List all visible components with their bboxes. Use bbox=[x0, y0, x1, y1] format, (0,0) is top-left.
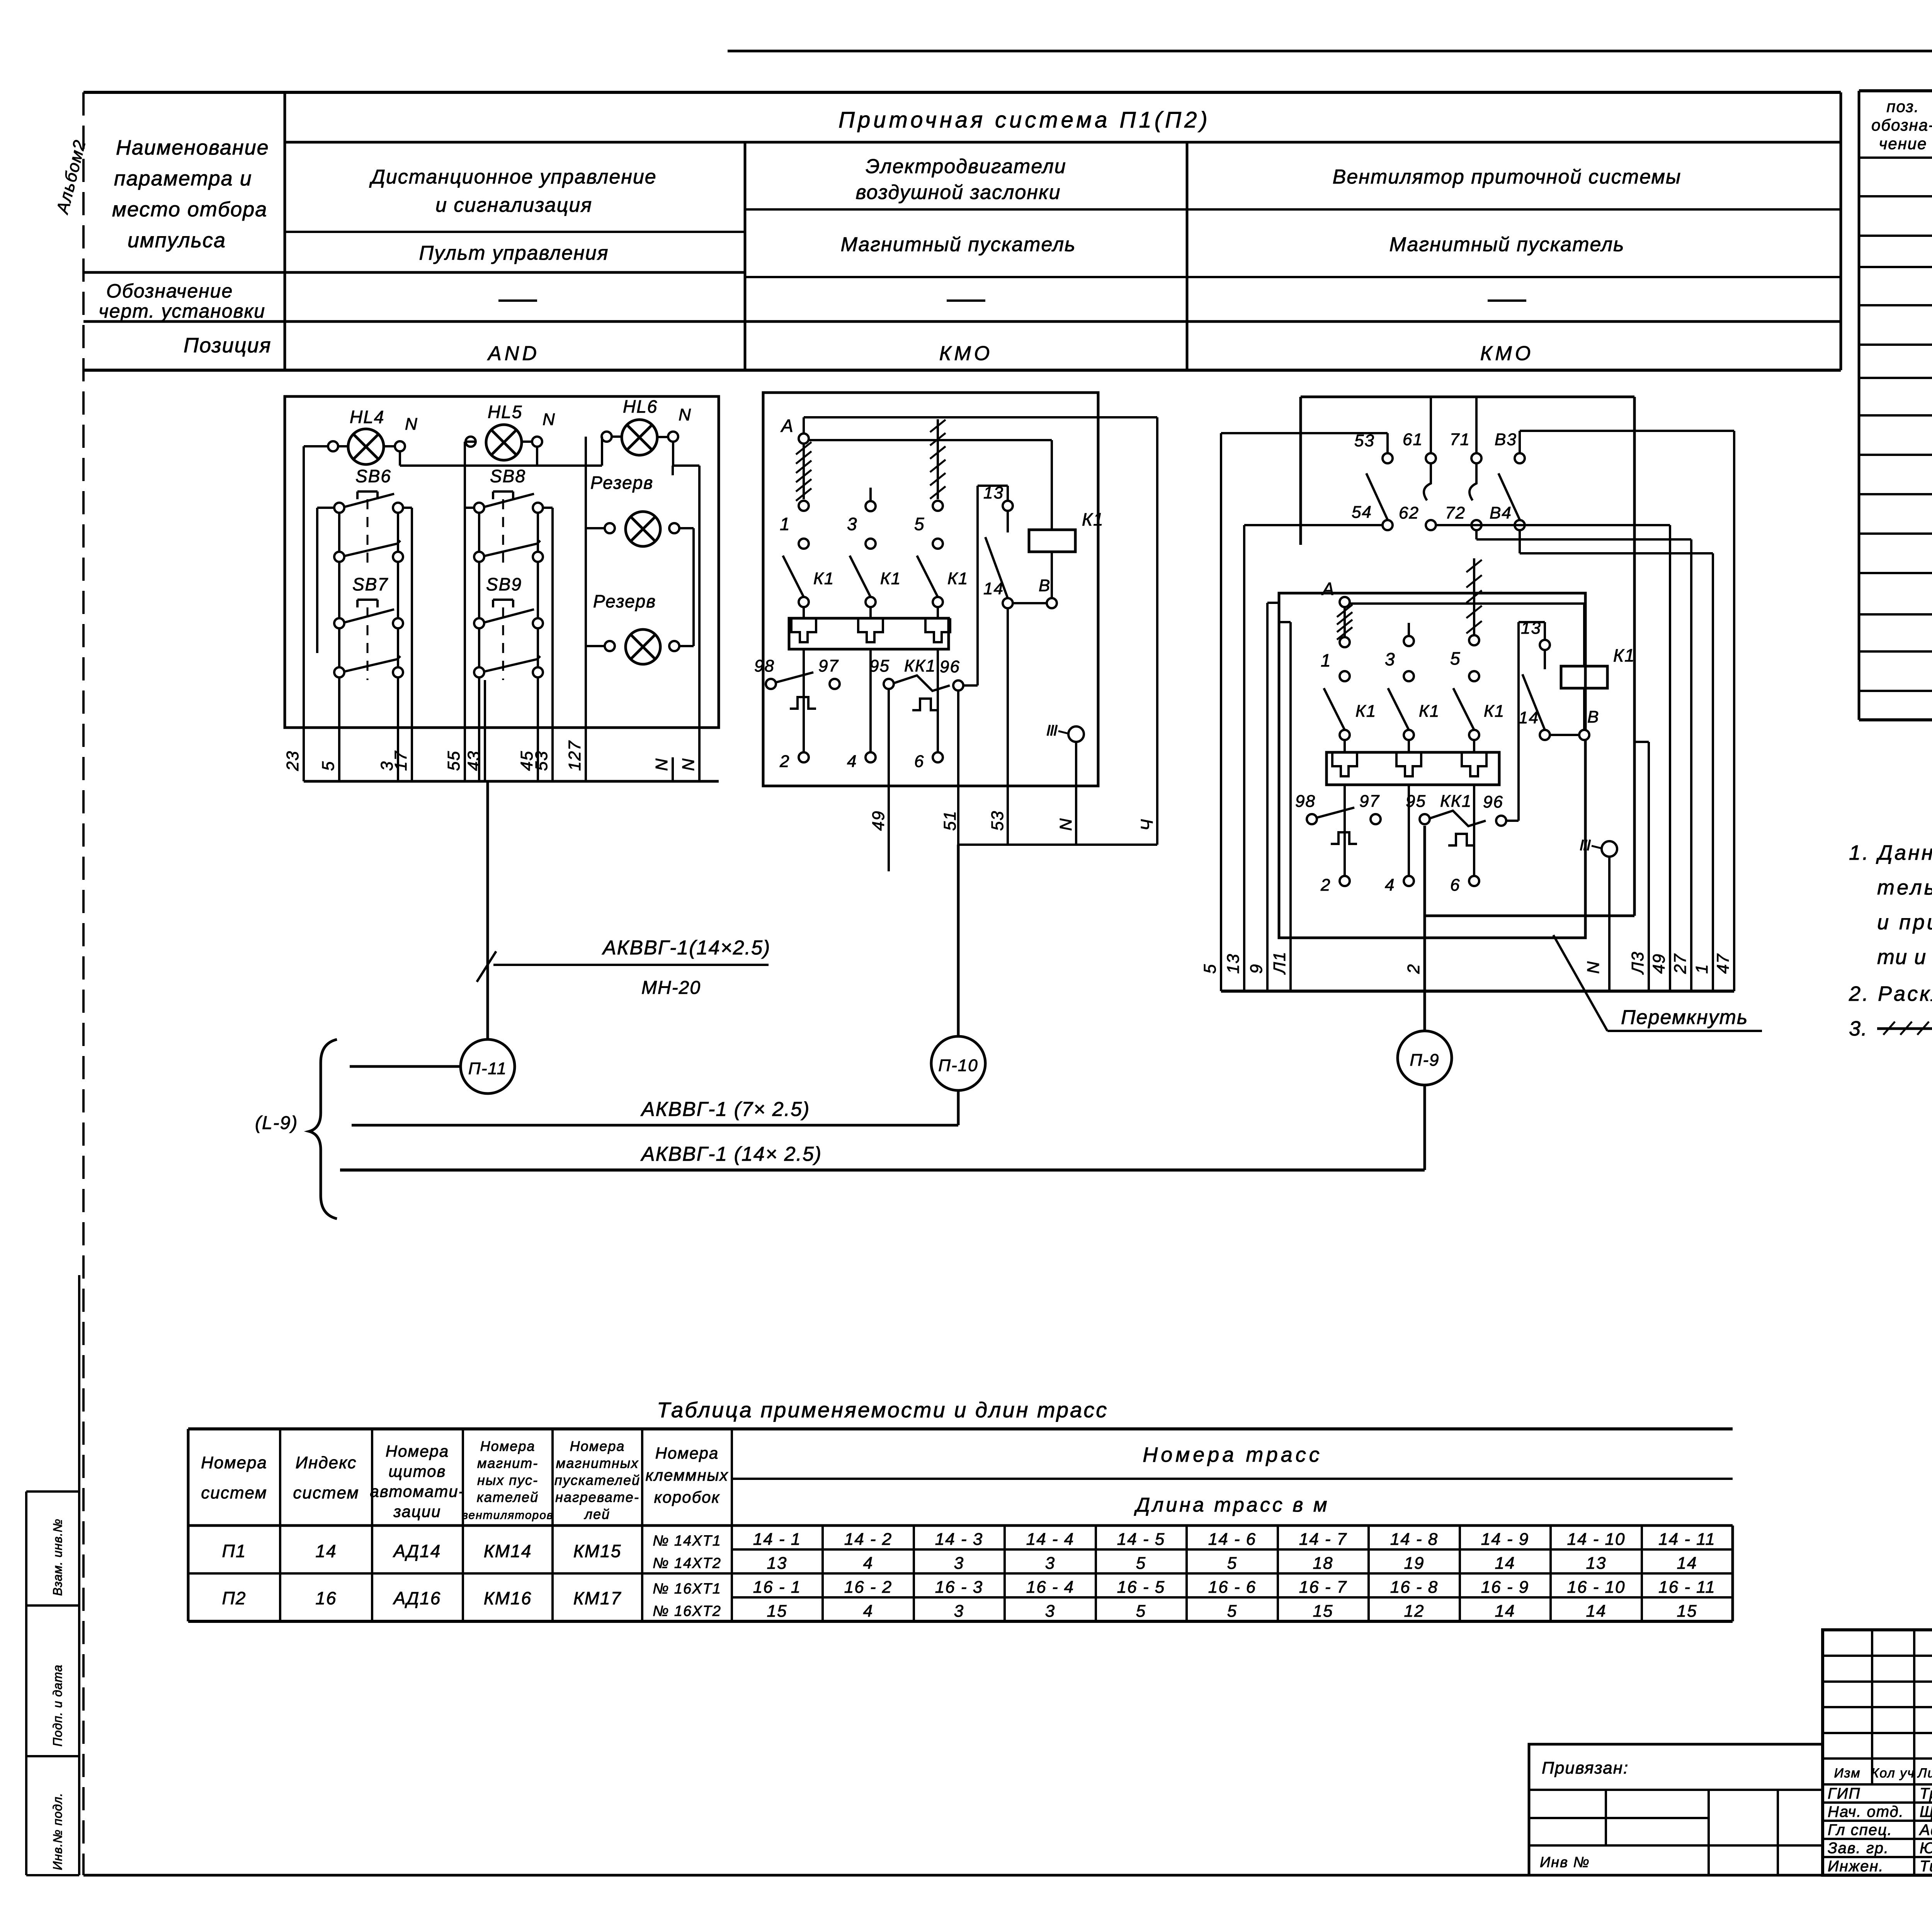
svg-text:62: 62 bbox=[1399, 503, 1419, 522]
svg-text:72: 72 bbox=[1445, 503, 1466, 522]
lamp HL4 bbox=[328, 407, 418, 464]
header label column texts bbox=[99, 136, 271, 357]
wire В4 bottom to bus 1 bbox=[1520, 530, 1713, 991]
svg-text:кателей: кателей bbox=[477, 1489, 539, 1505]
contactor K1 coil (block3) bbox=[1561, 645, 1635, 688]
button SB6 bbox=[334, 466, 403, 562]
margin label Альбом2 bbox=[53, 138, 89, 216]
svg-text:ти и длин трасс.: ти и длин трасс. bbox=[1877, 946, 1932, 969]
svg-text:14 - 3: 14 - 3 bbox=[935, 1530, 983, 1549]
svg-text:Инв №: Инв № bbox=[1540, 1854, 1590, 1871]
svg-text:13: 13 bbox=[1224, 953, 1243, 974]
svg-text:Номера: Номера bbox=[570, 1438, 625, 1454]
header column 3 texts bbox=[1333, 166, 1682, 365]
svg-text:АКВВГ-1 (14× 2.5): АКВВГ-1 (14× 2.5) bbox=[640, 1143, 822, 1165]
svg-text:14: 14 bbox=[1495, 1602, 1515, 1621]
damper starter box bbox=[763, 393, 1098, 786]
switch contact 71-72 bbox=[1445, 430, 1481, 530]
svg-text:14 - 11: 14 - 11 bbox=[1658, 1530, 1716, 1549]
wire 72 bottom to bus 27 bbox=[1476, 530, 1691, 991]
svg-text:Длина трасс в м: Длина трасс в м bbox=[1134, 1494, 1329, 1516]
wires SB6-SB7 column bbox=[317, 508, 412, 781]
svg-text:14 - 1: 14 - 1 bbox=[753, 1530, 801, 1549]
svg-text:16 - 2: 16 - 2 bbox=[844, 1578, 893, 1597]
svg-text:14: 14 bbox=[1586, 1602, 1607, 1621]
wire 96 to 13 bbox=[963, 486, 1008, 685]
svg-text:КМ17: КМ17 bbox=[573, 1588, 622, 1608]
svg-text:систем: систем bbox=[293, 1483, 359, 1502]
svg-text:магнит-: магнит- bbox=[477, 1455, 538, 1471]
svg-text:16 - 4: 16 - 4 bbox=[1026, 1578, 1075, 1597]
svg-text:6: 6 bbox=[914, 752, 924, 771]
svg-text:61: 61 bbox=[1403, 430, 1423, 449]
svg-text:Афонина: Афонина bbox=[1919, 1821, 1932, 1838]
header row Приточная система П1(П2) bbox=[838, 107, 1211, 133]
svg-text:Гл спец.: Гл спец. bbox=[1828, 1821, 1893, 1838]
terminal 1 (block2) bbox=[780, 501, 809, 549]
ground terminal (block3) bbox=[1581, 840, 1617, 857]
svg-text:49: 49 bbox=[869, 810, 888, 831]
svg-text:тельна для П2 с указанием: тельна для П2 с указанием в О индексов в… bbox=[1877, 876, 1932, 899]
svg-text:19: 19 bbox=[1404, 1554, 1425, 1573]
lamp HL5 bbox=[466, 402, 556, 460]
svg-text:1: 1 bbox=[1321, 650, 1332, 670]
svg-text:К1: К1 bbox=[1484, 702, 1505, 721]
svg-text:2: 2 bbox=[1404, 964, 1423, 974]
wire A to coil (block3) bbox=[1350, 604, 1584, 730]
svg-text:Нач. отд.: Нач. отд. bbox=[1828, 1803, 1904, 1820]
terminal 5 (block3) bbox=[1450, 635, 1479, 681]
svg-text:96: 96 bbox=[940, 657, 960, 676]
terminal 2 (block3) bbox=[1320, 876, 1350, 895]
svg-text:лей: лей bbox=[584, 1506, 610, 1522]
demolition legend symbol bbox=[1877, 1017, 1932, 1040]
svg-text:12: 12 bbox=[1404, 1602, 1425, 1621]
thermal contact 98-97 (block2) bbox=[754, 656, 840, 709]
svg-text:16 - 6: 16 - 6 bbox=[1208, 1578, 1257, 1597]
svg-text:Пульт управления: Пульт управления bbox=[419, 242, 609, 264]
svg-text:П-9: П-9 bbox=[1410, 1051, 1439, 1070]
main contacts K1 (block3) bbox=[1324, 688, 1505, 752]
wire buses 9 and Л1 bbox=[1267, 603, 1291, 991]
svg-text:Приточная система П1(П2): Приточная система П1(П2) bbox=[838, 107, 1211, 133]
svg-text:АКВВГ-1(14×2.5): АКВВГ-1(14×2.5) bbox=[602, 937, 770, 959]
wire 62 bottom to bus 49 bbox=[1436, 525, 1670, 991]
svg-text:14 - 9: 14 - 9 bbox=[1481, 1530, 1529, 1549]
svg-text:3: 3 bbox=[847, 514, 858, 534]
svg-text:Резерв: Резерв bbox=[593, 591, 656, 611]
bottom table header texts bbox=[201, 1438, 1329, 1522]
svg-text:Кол уч: Кол уч bbox=[1871, 1766, 1915, 1781]
terminal 1 (block3) bbox=[1321, 637, 1350, 681]
thermal relay heaters (block2) bbox=[789, 618, 950, 752]
parts table header texts bbox=[1871, 97, 1932, 153]
block2 trunk labels bbox=[869, 810, 1156, 831]
svg-text:Юрикова: Юрикова bbox=[1920, 1840, 1932, 1857]
svg-text:№ 16ХТ1: № 16ХТ1 bbox=[653, 1581, 721, 1597]
svg-text:К1: К1 bbox=[947, 569, 968, 588]
svg-text:3: 3 bbox=[954, 1602, 964, 1621]
svg-text:47: 47 bbox=[1714, 953, 1733, 974]
terminal 6 (block3) bbox=[1450, 876, 1479, 895]
control panel terminal strip bbox=[304, 680, 719, 781]
trunk circle П-10 bbox=[931, 1036, 985, 1090]
switch contact 53-54 bbox=[1352, 431, 1393, 530]
thermal contact 95-KK1-96 (block3) bbox=[1406, 792, 1506, 845]
svg-text:коробок: коробок bbox=[654, 1488, 720, 1506]
svg-text:чение: чение bbox=[1879, 134, 1927, 153]
svg-text:16 - 10: 16 - 10 bbox=[1567, 1578, 1626, 1597]
svg-text:Магнитный пускатель: Магнитный пускатель bbox=[841, 233, 1076, 256]
bottom table data rows bbox=[222, 1530, 1716, 1621]
wire N jog HL5-HL6 bbox=[537, 437, 602, 466]
svg-text:95: 95 bbox=[1406, 792, 1426, 811]
node A (block3) bbox=[1321, 579, 1350, 607]
switch contact 61-62 bbox=[1399, 430, 1436, 530]
wire A to coil bbox=[809, 440, 1052, 530]
svg-text:В4: В4 bbox=[1490, 503, 1512, 522]
wire coil to node B bbox=[1051, 552, 1053, 598]
svg-text:Подп. и дата: Подп. и дата bbox=[51, 1665, 65, 1747]
svg-text:2: 2 bbox=[1320, 876, 1331, 895]
svg-text:Привязан:: Привязан: bbox=[1542, 1759, 1629, 1777]
svg-text:51: 51 bbox=[940, 810, 959, 831]
svg-text:магнитных: магнитных bbox=[556, 1455, 639, 1471]
ground terminal (block2) bbox=[1048, 725, 1084, 742]
demolition-hatched feeder A-1 (block3) bbox=[1337, 605, 1352, 640]
svg-text:14: 14 bbox=[315, 1541, 337, 1561]
cable drop to П-9 bbox=[1423, 826, 1426, 1031]
svg-text:15: 15 bbox=[1677, 1602, 1697, 1621]
svg-text:Электродвигатели: Электродвигатели bbox=[866, 155, 1066, 178]
svg-text:щитов: щитов bbox=[389, 1462, 446, 1480]
wire stubs 61 71 tops bbox=[1431, 397, 1476, 453]
revision header labels bbox=[1834, 1766, 1932, 1781]
svg-text:N: N bbox=[679, 405, 692, 424]
svg-text:5: 5 bbox=[914, 514, 925, 534]
svg-text:9: 9 bbox=[1247, 964, 1266, 974]
title block outline bbox=[1823, 1630, 1932, 1875]
control panel box (Пульт управления) bbox=[285, 396, 719, 728]
svg-text:(L-9): (L-9) bbox=[255, 1113, 298, 1133]
svg-text:16: 16 bbox=[315, 1588, 337, 1608]
svg-text:3: 3 bbox=[954, 1554, 964, 1573]
node A (block2) bbox=[780, 416, 809, 444]
svg-text:систем: систем bbox=[201, 1483, 267, 1502]
svg-text:КМО: КМО bbox=[1480, 342, 1534, 365]
svg-text:Магнитный пускатель: Магнитный пускатель bbox=[1389, 233, 1625, 256]
trunk circle П-9 bbox=[1398, 1031, 1452, 1085]
svg-text:В: В bbox=[1039, 576, 1051, 595]
svg-text:№ 14ХТ2: № 14ХТ2 bbox=[653, 1555, 721, 1571]
thermal contact 95-KK1-96 (block2) bbox=[869, 656, 963, 710]
svg-text:27: 27 bbox=[1671, 953, 1690, 974]
svg-text:14 - 5: 14 - 5 bbox=[1117, 1530, 1165, 1549]
svg-text:ных пус-: ных пус- bbox=[477, 1472, 538, 1488]
svg-text:КК1: КК1 bbox=[1440, 792, 1472, 811]
fan starter box bbox=[1279, 593, 1585, 938]
svg-text:16 - 5: 16 - 5 bbox=[1117, 1578, 1165, 1597]
svg-text:54: 54 bbox=[1352, 503, 1372, 522]
svg-text:пускателей: пускателей bbox=[554, 1472, 640, 1488]
svg-text:AND: AND bbox=[487, 342, 540, 365]
notes text bbox=[1849, 841, 1932, 1040]
svg-text:43: 43 bbox=[464, 750, 483, 771]
svg-text:Обозначение: Обозначение bbox=[106, 280, 233, 302]
svg-text:В3: В3 bbox=[1495, 430, 1517, 449]
svg-text:15: 15 bbox=[767, 1602, 787, 1621]
switch contact В3-В4 bbox=[1490, 430, 1525, 530]
svg-text:и приборов и маркировке трас: и приборов и маркировке трасс согласно т… bbox=[1877, 911, 1932, 934]
svg-text:3: 3 bbox=[1385, 649, 1396, 669]
terminal 4 (block2) bbox=[847, 752, 876, 771]
svg-text:Перемкнуть: Перемкнуть bbox=[1621, 1006, 1748, 1029]
svg-text:П1: П1 bbox=[222, 1541, 247, 1561]
svg-text:3.: 3. bbox=[1849, 1017, 1868, 1040]
button SB7 bbox=[334, 574, 403, 677]
wire П-11 stub bbox=[350, 1065, 461, 1068]
wire N bus right bbox=[673, 442, 699, 781]
wire outer loop 4 bbox=[804, 417, 1157, 845]
svg-text:5: 5 bbox=[1201, 964, 1219, 974]
svg-text:КК1: КК1 bbox=[904, 656, 936, 675]
svg-text:SB7: SB7 bbox=[352, 574, 388, 594]
svg-text:АД16: АД16 bbox=[393, 1588, 441, 1608]
wire 96 to 13 (block3) bbox=[1506, 622, 1545, 821]
svg-text:14 - 2: 14 - 2 bbox=[844, 1530, 893, 1549]
bottom table grid bbox=[188, 1429, 1733, 1621]
svg-text:Изм: Изм bbox=[1834, 1766, 1861, 1781]
svg-text:вентиляторов: вентиляторов bbox=[462, 1509, 553, 1522]
svg-text:23: 23 bbox=[283, 750, 302, 771]
left margin stamp boxes bbox=[26, 1275, 79, 1875]
svg-text:71: 71 bbox=[1450, 430, 1470, 449]
svg-text:5: 5 bbox=[319, 761, 338, 771]
cable marker АКВВГ-1 (14х2.5) МН-20 bbox=[477, 937, 770, 998]
svg-text:16 - 9: 16 - 9 bbox=[1481, 1578, 1529, 1597]
wire collector to П-10 bbox=[958, 845, 1157, 1036]
svg-text:импульса: импульса bbox=[128, 229, 226, 252]
svg-text:14: 14 bbox=[1495, 1554, 1515, 1573]
left margin stamp labels bbox=[51, 1519, 65, 1870]
svg-text:5: 5 bbox=[1136, 1554, 1146, 1573]
svg-text:КМ15: КМ15 bbox=[573, 1541, 622, 1561]
lamp HL6 bbox=[602, 396, 692, 455]
main contacts K1 (block2) bbox=[783, 556, 968, 618]
wire lamp HL5 leads bbox=[465, 440, 532, 443]
svg-text:Трушин: Трушин bbox=[1920, 1785, 1932, 1802]
svg-text:место отбора: место отбора bbox=[112, 198, 267, 221]
terminal 6 (block2) bbox=[914, 752, 943, 771]
jumper note Перемкнуть bbox=[1553, 935, 1762, 1031]
svg-text:96: 96 bbox=[1483, 793, 1503, 811]
svg-text:16 - 11: 16 - 11 bbox=[1658, 1578, 1716, 1597]
wires block2 to collector bbox=[889, 608, 1076, 871]
svg-text:14 - 6: 14 - 6 bbox=[1208, 1530, 1257, 1549]
svg-text:черт. установки: черт. установки bbox=[99, 300, 265, 322]
svg-text:Инжен.: Инжен. bbox=[1828, 1858, 1884, 1875]
svg-text:№ 14ХТ1: № 14ХТ1 bbox=[653, 1533, 721, 1549]
svg-text:16 - 8: 16 - 8 bbox=[1390, 1578, 1439, 1597]
cable АКВВГ-1 (7х2.5) bbox=[352, 1098, 958, 1125]
svg-text:Номера: Номера bbox=[201, 1453, 267, 1472]
svg-text:Номера: Номера bbox=[655, 1444, 719, 1462]
bottom table title bbox=[657, 1398, 1108, 1422]
svg-text:К1: К1 bbox=[880, 569, 901, 588]
svg-text:127: 127 bbox=[565, 740, 584, 771]
svg-text:14 - 8: 14 - 8 bbox=[1390, 1530, 1439, 1549]
header column 1 texts bbox=[369, 166, 656, 365]
svg-text:№ 16ХТ2: № 16ХТ2 bbox=[653, 1603, 721, 1619]
svg-text:Л3: Л3 bbox=[1628, 951, 1647, 975]
svg-text:2. Раскладка трасс П-1...П-1: 2. Раскладка трасс П-1...П-11 выполнена … bbox=[1849, 982, 1932, 1005]
lamp reserve 1 bbox=[590, 473, 679, 546]
personnel rows bbox=[1823, 1784, 1932, 1875]
svg-text:5: 5 bbox=[1227, 1602, 1237, 1621]
svg-text:55: 55 bbox=[444, 750, 463, 771]
aux contact 13-14 (block3) bbox=[1519, 619, 1579, 740]
svg-text:SB6: SB6 bbox=[355, 466, 391, 486]
svg-text:АКВВГ-1 (7× 2.5): АКВВГ-1 (7× 2.5) bbox=[640, 1098, 810, 1121]
svg-text:параметра и: параметра и bbox=[114, 167, 252, 190]
wire П-10 lead down bbox=[957, 1090, 960, 1125]
svg-text:5: 5 bbox=[1136, 1602, 1146, 1621]
svg-text:13: 13 bbox=[1586, 1554, 1607, 1573]
svg-text:КМО: КМО bbox=[939, 342, 993, 365]
svg-text:4: 4 bbox=[863, 1602, 873, 1621]
button SB9 actuator dashed link bbox=[502, 607, 504, 680]
node B (block3) bbox=[1579, 707, 1599, 740]
thermal relay heaters (block3) bbox=[1327, 752, 1499, 876]
svg-text:Л1: Л1 bbox=[1270, 951, 1289, 975]
svg-text:97: 97 bbox=[1359, 792, 1380, 811]
svg-text:1: 1 bbox=[780, 514, 791, 534]
svg-text:АД14: АД14 bbox=[393, 1541, 441, 1561]
svg-text:17: 17 bbox=[391, 750, 410, 771]
svg-text:зации: зации bbox=[393, 1502, 441, 1520]
svg-text:К1: К1 bbox=[1613, 645, 1635, 665]
svg-text:К1: К1 bbox=[813, 569, 834, 588]
terminal 3 (block2) bbox=[847, 488, 876, 549]
svg-text:Таблица применяемости и д: Таблица применяемости и длин трасс bbox=[657, 1398, 1108, 1422]
svg-text:Номера: Номера bbox=[386, 1442, 449, 1460]
svg-text:HL4: HL4 bbox=[350, 407, 384, 427]
svg-text:Тихонова: Тихонова bbox=[1920, 1858, 1932, 1875]
svg-text:16 - 3: 16 - 3 bbox=[935, 1578, 983, 1597]
svg-text:N: N bbox=[405, 415, 418, 434]
svg-text:98: 98 bbox=[1295, 792, 1316, 811]
svg-text:А: А bbox=[1321, 579, 1335, 599]
svg-text:HL6: HL6 bbox=[623, 396, 658, 417]
svg-text:К1: К1 bbox=[1355, 702, 1376, 721]
svg-text:МН-20: МН-20 bbox=[641, 978, 701, 998]
svg-text:Инв.№ подл.: Инв.№ подл. bbox=[51, 1793, 65, 1870]
svg-text:5: 5 bbox=[1227, 1554, 1237, 1573]
svg-text:и сигнализация: и сигнализация bbox=[435, 194, 592, 216]
svg-text:16 - 1: 16 - 1 bbox=[753, 1578, 801, 1597]
svg-text:Взам. инв.№: Взам. инв.№ bbox=[51, 1519, 65, 1596]
svg-text:98: 98 bbox=[754, 656, 775, 675]
svg-text:18: 18 bbox=[1313, 1554, 1333, 1573]
svg-text:3: 3 bbox=[1045, 1554, 1055, 1573]
svg-text:14: 14 bbox=[983, 579, 1004, 598]
svg-text:Индекс: Индекс bbox=[296, 1453, 357, 1472]
demolition-hatched feeder A-1 bbox=[796, 442, 811, 501]
trunk circle П-11 bbox=[461, 1039, 515, 1094]
svg-text:13: 13 bbox=[767, 1554, 787, 1573]
frame left border bbox=[82, 92, 85, 1875]
svg-text:14: 14 bbox=[1519, 708, 1539, 727]
svg-text:N: N bbox=[1584, 961, 1603, 974]
svg-text:КМ14: КМ14 bbox=[484, 1541, 532, 1561]
terminal 3 (block3) bbox=[1385, 623, 1414, 681]
svg-text:4: 4 bbox=[1385, 876, 1395, 895]
svg-text:КМ16: КМ16 bbox=[484, 1588, 532, 1608]
button SB9 bbox=[474, 574, 543, 677]
contactor K1 coil (block2) bbox=[1029, 509, 1104, 552]
svg-text:14: 14 bbox=[1677, 1554, 1697, 1573]
svg-text:клеммных: клеммных bbox=[645, 1466, 728, 1484]
thermal contact 98-97 (block3) bbox=[1295, 792, 1381, 844]
svg-text:Дистанционное управление: Дистанционное управление bbox=[369, 166, 656, 188]
svg-text:49: 49 bbox=[1650, 953, 1668, 974]
svg-text:53: 53 bbox=[988, 810, 1007, 831]
svg-text:В: В bbox=[1587, 707, 1599, 726]
node B (block2) bbox=[1039, 576, 1057, 608]
demolition-hatched feeder 5 (block3) bbox=[1466, 558, 1482, 635]
svg-text:Наименование: Наименование bbox=[116, 136, 269, 159]
svg-text:15: 15 bbox=[1313, 1602, 1333, 1621]
block3 trunk labels bbox=[1201, 951, 1733, 975]
svg-text:N: N bbox=[1056, 818, 1075, 831]
svg-text:П-11: П-11 bbox=[468, 1059, 507, 1078]
svg-text:HL5: HL5 bbox=[488, 402, 522, 422]
svg-text:П2: П2 bbox=[222, 1588, 247, 1608]
svg-text:К1: К1 bbox=[1082, 509, 1104, 529]
frame bottom border bbox=[83, 1874, 1932, 1877]
svg-text:автомати-: автомати- bbox=[370, 1482, 464, 1500]
svg-text:Позиция: Позиция bbox=[184, 334, 271, 357]
svg-text:нагревате-: нагревате- bbox=[555, 1489, 639, 1505]
demolition-hatched feeder 5 bbox=[930, 419, 946, 499]
svg-text:поз.: поз. bbox=[1886, 97, 1919, 116]
wire В3 top to bus 47 bbox=[1520, 431, 1734, 991]
svg-text:П-10: П-10 bbox=[938, 1056, 978, 1075]
svg-text:Вентилятор приточной систе: Вентилятор приточной системы bbox=[1333, 166, 1682, 188]
svg-text:Щунский: Щунский bbox=[1920, 1803, 1932, 1820]
svg-text:Ч: Ч bbox=[1138, 818, 1156, 831]
svg-text:SB8: SB8 bbox=[490, 466, 526, 486]
svg-text:Зав. гр.: Зав. гр. bbox=[1828, 1840, 1889, 1857]
aux contact 13-14 (block2) bbox=[983, 483, 1047, 608]
svg-text:4: 4 bbox=[847, 752, 857, 771]
control panel terminal numbers bbox=[283, 740, 698, 771]
button SB8 bbox=[474, 466, 543, 562]
svg-text:SB9: SB9 bbox=[486, 574, 522, 594]
svg-text:Резерв: Резерв bbox=[590, 473, 653, 493]
svg-text:3: 3 bbox=[1045, 1602, 1055, 1621]
svg-text:14 - 10: 14 - 10 bbox=[1567, 1530, 1626, 1549]
cable group brace (L-9) bbox=[255, 1039, 337, 1219]
attachment box Привязан bbox=[1529, 1744, 1823, 1875]
wire bus Л3 bbox=[1634, 742, 1649, 991]
svg-text:N: N bbox=[543, 410, 556, 429]
wire 54 bottom to bus 13 bbox=[1244, 525, 1383, 991]
svg-text:Лист: Лист bbox=[1917, 1766, 1932, 1781]
terminal 2 (block2) bbox=[779, 752, 809, 771]
wire lamp HL4 leads bbox=[338, 445, 395, 447]
svg-text:N: N bbox=[679, 758, 698, 771]
